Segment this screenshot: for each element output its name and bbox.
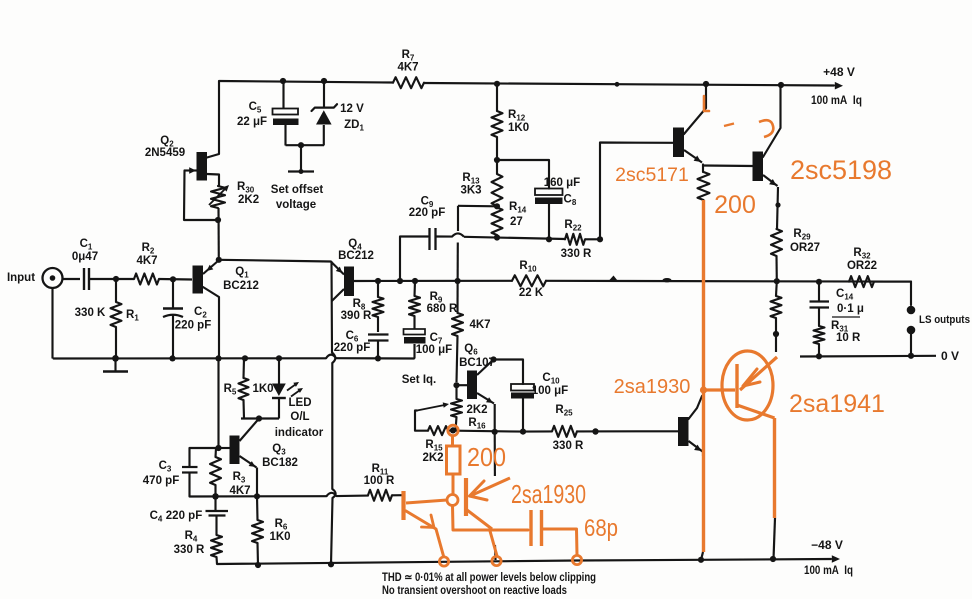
svg-text:100 μF: 100 μF [416, 344, 452, 356]
svg-text:1K0: 1K0 [508, 122, 529, 134]
junction on rail at R12 [494, 81, 500, 87]
svg-text:BC212: BC212 [223, 280, 259, 292]
annotation capacitor 68p [529, 510, 532, 546]
svg-text:R3: R3 [233, 471, 246, 485]
Q3 emitter lead [240, 456, 257, 468]
junction R12-R13 [494, 157, 500, 163]
Q1 collector lead [203, 287, 219, 358]
svg-text:C14: C14 [836, 288, 854, 302]
junction on rail at C5 [280, 78, 286, 84]
wire junction to VAS vertical [458, 205, 497, 208]
Q3 collector lead [240, 419, 260, 442]
wire signal ground run [54, 357, 327, 359]
svg-text:100 R: 100 R [364, 475, 395, 487]
wire LS- to 0V [910, 334, 912, 356]
annotation T1 emitter lead [406, 511, 444, 556]
svg-text:No transient overshoot on reac: No transient overshoot on reactive loads [382, 583, 567, 597]
resistor R31 [818, 308, 820, 326]
wire 0V line [800, 355, 936, 358]
wire R2 to Q1 base [159, 278, 192, 281]
svg-text:BC212: BC212 [338, 250, 374, 262]
svg-text:0·1 μ: 0·1 μ [837, 303, 864, 315]
svg-text:1K0: 1K0 [252, 383, 273, 395]
transistor Q9 body [678, 417, 689, 446]
resistor R22 [565, 234, 585, 245]
svg-text:Set Iq.: Set Iq. [402, 374, 437, 386]
svg-text:2sc5171: 2sc5171 [615, 164, 689, 186]
junction blob on rail [615, 82, 620, 87]
svg-text:100 mA Iq: 100 mA Iq [804, 565, 853, 577]
Q6 collector lead [477, 361, 493, 376]
junction bottom rail R6 [255, 562, 261, 568]
LS output terminal - [907, 326, 916, 335]
transistor Q7 body [673, 128, 684, 158]
svg-text:R2: R2 [142, 242, 155, 256]
svg-text:330 K: 330 K [75, 307, 106, 319]
Q2 gate lead [185, 169, 197, 171]
junction R3 bottom [212, 493, 219, 500]
svg-text:160 μF: 160 μF [544, 177, 580, 189]
svg-text:330 R: 330 R [174, 544, 205, 556]
svg-text:R10: R10 [519, 260, 537, 274]
junction Q1 emitter node [216, 257, 222, 263]
capacitor C4 [214, 496, 216, 510]
transistor Q4 body [344, 267, 354, 297]
resistor R9 [413, 281, 416, 296]
Q4 emitter lead [331, 262, 344, 275]
capacitor C6 [368, 333, 389, 335]
resistor R1 [115, 279, 117, 302]
wire Q3 base to C3 [190, 448, 219, 466]
svg-text:2K2: 2K2 [466, 404, 487, 416]
transistor Q1 body [193, 266, 204, 294]
junction Q3 emitter bottom [254, 493, 260, 499]
wire Q2 gate loop [184, 171, 218, 221]
resistor R7 [393, 77, 424, 88]
svg-text:+48 V: +48 V [823, 65, 855, 79]
node R1 top [113, 276, 119, 282]
transistor Q6 body [467, 371, 477, 400]
Q9 collector lead [689, 396, 703, 419]
wire rail down to Q2 drain [207, 81, 219, 158]
wire Q6 emitter down [494, 404, 496, 432]
annotation T2 emitter lead [467, 510, 492, 529]
input jack [43, 268, 63, 288]
resistor R14 [492, 208, 503, 236]
wire R12 node to C8 [497, 160, 549, 189]
svg-text:220 pF: 220 pF [334, 342, 370, 354]
wiper bracket [415, 411, 428, 431]
wire R14 bottom run [464, 237, 565, 239]
resistor R12 [492, 111, 503, 137]
junction 2sa1941 emitter node [773, 331, 779, 337]
svg-text:330 R: 330 R [553, 440, 584, 452]
resistor R6 [256, 496, 259, 520]
Q8 collector lead [763, 85, 781, 157]
annotation wire 2sa1941 to black [701, 552, 703, 560]
svg-text:Q6: Q6 [464, 343, 478, 357]
wire R25 to Q9 base [577, 430, 678, 432]
svg-text:680 R: 680 R [427, 303, 458, 315]
junction C8 bottom [546, 236, 552, 242]
junction output node R29 [774, 278, 780, 284]
annotation stray dash [724, 124, 734, 127]
junction LED top [276, 355, 282, 361]
wire R11 to added transistor [392, 494, 403, 496]
wire Q6 collector to C10 [494, 360, 524, 385]
wire input jack to ground rail [51, 288, 53, 359]
LED diode [278, 358, 280, 383]
svg-text:C4: C4 [150, 510, 163, 524]
bump mark on rail [609, 276, 618, 281]
wire C9 branch [400, 237, 428, 282]
capacitor C1 [83, 268, 85, 290]
wire Q7 emitter node [702, 165, 704, 173]
svg-text:12 V: 12 V [340, 103, 364, 115]
resistor R25 [552, 426, 577, 437]
resistor R32 [849, 276, 874, 287]
junction ground C2 [169, 355, 175, 361]
svg-text:C3: C3 [159, 460, 172, 474]
wire C5-ZD1 tie [286, 144, 325, 146]
Q7 collector lead [684, 84, 706, 134]
junction C6 bottom [375, 355, 381, 361]
junction bottom rail lower output [698, 557, 704, 563]
annotation stray L mark [704, 96, 709, 111]
junction Q6 base [453, 382, 459, 388]
resistor R8 [377, 281, 379, 297]
svg-text:220 pF: 220 pF [409, 207, 445, 219]
annotation stray hook [759, 120, 773, 137]
svg-text:voltage: voltage [276, 199, 316, 211]
wire Q9 emitter stub [702, 452, 704, 456]
LS output terminal + [907, 306, 916, 315]
svg-text:BC182: BC182 [262, 457, 298, 469]
wire Q8 emitter down [777, 187, 778, 229]
wire Q7 to Q8 base [703, 164, 753, 167]
capacitor C5 (electrolytic) [273, 109, 299, 115]
svg-text:0 V: 0 V [941, 349, 959, 363]
capacitor C8 (electrolytic) [535, 189, 563, 196]
svg-text:3K3: 3K3 [460, 185, 481, 197]
svg-text:C10: C10 [542, 372, 560, 386]
svg-text:R15: R15 [425, 439, 443, 453]
wire C1 to R2 [89, 278, 134, 280]
resistor 200R emitter (upper) [698, 172, 710, 200]
zener ZD1 [323, 81, 325, 107]
svg-text:220 pF: 220 pF [175, 320, 211, 332]
capacitor C10 (electrolytic) [511, 384, 534, 391]
junction ground Q1 collector [215, 355, 221, 361]
junction R15-R16 node [450, 427, 456, 433]
svg-text:R12: R12 [508, 109, 526, 123]
annotation 68p right lead [542, 529, 578, 555]
wire rail to C5 [282, 81, 284, 108]
transistor Q3 body [230, 436, 240, 465]
junction Q6 collector node [490, 356, 496, 362]
svg-text:0μ47: 0μ47 [72, 251, 98, 263]
svg-text:R1: R1 [126, 309, 139, 323]
svg-text:LS outputs: LS outputs [919, 314, 970, 326]
wire lower network run [190, 495, 327, 497]
svg-text:R14: R14 [509, 201, 527, 215]
wire rail to R12 [496, 84, 498, 111]
svg-text:100 mA Iq: 100 mA Iq [811, 95, 862, 107]
svg-text:100 μF: 100 μF [532, 385, 568, 397]
annotation ring node T1 collector [447, 495, 458, 506]
capacitor C14 [818, 282, 820, 301]
annotation T2 collector path [490, 531, 497, 556]
transistor Q8 body [753, 152, 764, 182]
svg-text:10 R: 10 R [836, 332, 861, 344]
resistor R3 [214, 448, 217, 457]
resistor R2 [134, 274, 159, 285]
annotation T2 base lead [470, 478, 510, 496]
wire Q1 collector to Q3 base [217, 358, 219, 448]
annotation 68p terminal ring [572, 555, 581, 564]
junction R9 top [412, 278, 418, 284]
wire R5-LED tie [241, 417, 279, 419]
resistor R11 [368, 490, 392, 501]
junction bottom rail tail line [328, 561, 334, 567]
svg-text:390 R: 390 R [341, 310, 372, 322]
Q6 emitter lead [477, 393, 494, 404]
junction C9 drop [397, 278, 403, 284]
svg-text:22 μF: 22 μF [237, 116, 267, 128]
wire bias node down [494, 432, 496, 476]
junction Q3 collector node [256, 415, 262, 421]
junction on rail at Q7 collector [703, 81, 709, 87]
svg-text:4K7: 4K7 [397, 62, 418, 74]
junction 4K7 top [455, 278, 461, 284]
fraction bar [832, 316, 860, 318]
blob on rail [663, 278, 672, 282]
svg-text:C5: C5 [249, 101, 262, 115]
svg-text:2N5459: 2N5459 [145, 147, 185, 159]
svg-text:2K2: 2K2 [238, 194, 259, 206]
wire R22 to drive node [585, 238, 600, 240]
svg-text:−48 V: −48 V [811, 538, 843, 552]
svg-text:C8: C8 [564, 194, 577, 208]
-48V arrowhead [832, 555, 840, 563]
svg-text:2sa1941: 2sa1941 [789, 390, 885, 418]
svg-text:Q1: Q1 [235, 266, 249, 280]
wire C10 to R25 [523, 430, 552, 432]
annotation emitter bus wire [453, 506, 529, 531]
svg-text:C2: C2 [194, 306, 207, 320]
LED arrows [287, 383, 298, 391]
node C2 top [170, 276, 176, 282]
junction Q8 emitter stub [775, 202, 780, 207]
svg-text:4K7: 4K7 [469, 319, 490, 331]
svg-text:R30: R30 [237, 181, 255, 195]
svg-text:R4: R4 [185, 530, 198, 544]
annotation T1 collector lead [406, 500, 447, 503]
wire Q2 source to R30 [207, 174, 219, 186]
svg-text:Input: Input [7, 272, 35, 284]
svg-text:Set offset: Set offset [271, 184, 324, 196]
svg-text:200: 200 [714, 191, 756, 219]
annotation T1 terminal ring [439, 557, 448, 566]
svg-text:1K0: 1K0 [269, 531, 290, 543]
wire diff tail line down [330, 262, 333, 353]
svg-text:R6: R6 [275, 518, 288, 532]
annotation long wire upper output emitter [702, 200, 705, 552]
resistor R29 [771, 229, 782, 256]
resistor 4K7 mid [457, 206, 459, 231]
svg-text:27: 27 [510, 216, 523, 228]
wire output feedback rail left [354, 280, 512, 282]
resistor R4 [211, 535, 222, 557]
svg-text:R5: R5 [224, 383, 237, 397]
svg-text:OR22: OR22 [847, 260, 877, 272]
junction R13-R14 [494, 203, 500, 209]
ground symbol [114, 359, 116, 372]
wire to 2sa1941 emitter [775, 318, 777, 334]
svg-text:C1: C1 [80, 238, 93, 252]
junction bottom rail 2sa1941 [770, 556, 776, 562]
svg-text:LED: LED [289, 397, 312, 409]
Q7 emitter lead [684, 150, 702, 163]
annotation transistor 2sa1941 circle [722, 351, 773, 420]
wire R30 to Q1 emitter [217, 208, 219, 260]
junction Q6 emitter bottom [492, 429, 498, 435]
trimmer R16 [455, 385, 457, 399]
capacitor C2 [172, 279, 174, 308]
svg-text:68p: 68p [584, 515, 618, 542]
junction 0V LS [908, 353, 914, 359]
annotation transistor T2 bar [464, 478, 468, 516]
junction C4 top [214, 495, 216, 497]
junction offset ground tap [298, 142, 304, 148]
capacitor C9 [428, 228, 430, 250]
svg-text:2sc5198: 2sc5198 [790, 155, 892, 185]
junction Q3 base node [215, 445, 221, 451]
svg-text:2K2: 2K2 [422, 452, 443, 464]
junction R5 top [242, 355, 248, 361]
wire +48V supply rail [220, 81, 394, 83]
annotation 2sa1941 collector wire [773, 418, 776, 518]
annotation transistor T1 bar [401, 491, 405, 520]
junction R14 bottom [494, 234, 500, 240]
wire drive node up to Q7 base [600, 143, 673, 240]
wire bias bottom run [448, 431, 523, 432]
junction gate loop [215, 217, 221, 223]
junction Zobel bottom [816, 353, 822, 359]
annotation 2sa1941 emitter lead [740, 357, 777, 390]
wire stub below [775, 334, 777, 352]
svg-text:4K7: 4K7 [136, 255, 157, 267]
wire Q3 emitter down [256, 468, 258, 497]
wire R29 to output rail [775, 256, 777, 281]
svg-text:22 K: 22 K [519, 287, 544, 299]
annotation 2sa1941 base bar [735, 364, 738, 408]
annotation 2sa1941 collector lead [737, 405, 775, 418]
junction ground R1 [112, 355, 119, 362]
svg-text:ZD1: ZD1 [344, 119, 364, 133]
svg-text:2sa1930: 2sa1930 [511, 479, 586, 509]
junction drive node [597, 236, 603, 242]
trimmer R30 [211, 186, 225, 208]
svg-text:THD ≃ 0·01% at all power level: THD ≃ 0·01% at all power levels below cl… [382, 570, 596, 584]
capacitor C7 (electrolytic) [404, 329, 426, 335]
junction drive node lower [592, 428, 598, 434]
annotation 2sa1941 emitter arrow [743, 369, 760, 386]
svg-text:indicator: indicator [275, 427, 324, 439]
svg-text:R32: R32 [853, 247, 871, 261]
resistor R5 [242, 358, 245, 378]
junction on rail at Q8 collector [778, 82, 784, 88]
svg-text:R13: R13 [462, 172, 480, 186]
svg-text:R25: R25 [555, 404, 573, 418]
svg-text:R29: R29 [793, 228, 811, 242]
capacitor C3 [182, 466, 198, 468]
svg-text:220 pF: 220 pF [166, 510, 202, 522]
svg-text:R7: R7 [402, 49, 415, 63]
wire output rail right [546, 280, 911, 283]
svg-text:R16: R16 [468, 417, 486, 431]
junction on rail at ZD1 [321, 78, 327, 84]
svg-text:2sa1930: 2sa1930 [614, 376, 691, 398]
resistor lower emitter [771, 296, 782, 318]
svg-text:4K7: 4K7 [229, 485, 250, 497]
svg-text:330 R: 330 R [561, 248, 592, 260]
svg-text:O/L: O/L [290, 411, 309, 423]
wire rail to LS+ [874, 282, 911, 305]
resistor R10 [512, 275, 546, 286]
resistor R13 [496, 160, 498, 174]
Q8 emitter lead [763, 175, 778, 186]
wire Q1 emitter to Q4 emitter [219, 260, 331, 262]
annotation 2sa1941 base wire [704, 388, 736, 391]
annotation wire 1941col to black [774, 518, 776, 559]
annotation T2 terminal ring [492, 556, 501, 565]
wire Q6 base [457, 384, 468, 386]
resistor R15 [428, 426, 448, 435]
junction C10 bottom [520, 429, 526, 435]
Q1 emitter lead [203, 261, 219, 275]
svg-text:470 pF: 470 pF [143, 475, 179, 487]
svg-text:200: 200 [467, 442, 506, 472]
wire input to C1 [63, 278, 80, 280]
svg-text:OR27: OR27 [790, 242, 820, 254]
transistor Q2 body [197, 152, 208, 181]
wire -48V supply rail [217, 559, 831, 564]
annotation 200 resistor body [447, 446, 461, 474]
annotation ring node R15 [448, 425, 458, 435]
Q4 collector lead [332, 289, 344, 301]
set-offset ground stub [300, 145, 302, 171]
+48V arrowhead [835, 82, 843, 90]
junction R8 top [375, 278, 381, 284]
Q9 emitter lead [689, 441, 703, 452]
svg-text:R22: R22 [564, 219, 582, 233]
junction Zobel top [816, 279, 822, 285]
svg-text:Q3: Q3 [272, 443, 286, 457]
